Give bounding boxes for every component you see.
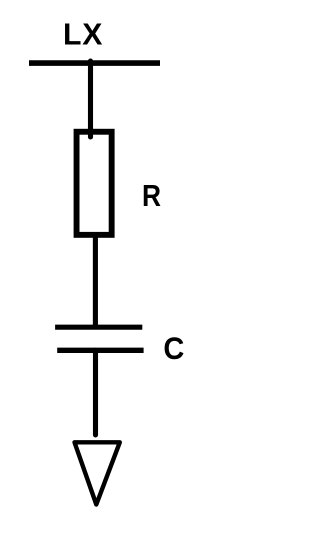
capacitor C bottom plate	[57, 348, 143, 353]
svg-text:C: C	[163, 332, 184, 366]
resistor R	[77, 132, 112, 235]
svg-text:R: R	[142, 179, 161, 213]
svg-text:LX: LX	[63, 19, 103, 52]
wire: LX rail to resistor R top	[88, 61, 93, 137]
top rail (net LX)	[29, 60, 160, 66]
capacitor C top plate	[55, 325, 142, 330]
wire: resistor R bottom to capacitor C top	[93, 235, 98, 327]
wire: capacitor C bottom to ground	[93, 350, 98, 435]
ground	[75, 442, 120, 504]
